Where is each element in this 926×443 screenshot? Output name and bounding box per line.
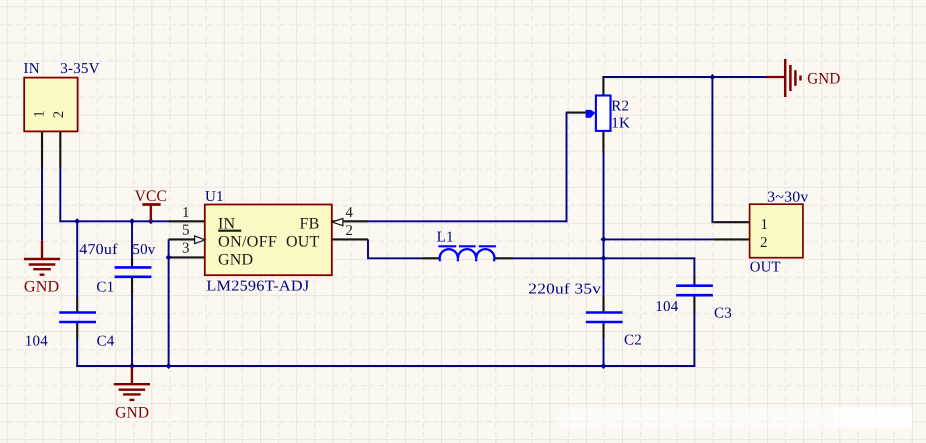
svg-text:220uf 35v: 220uf 35v xyxy=(528,282,601,298)
svg-text:50v: 50v xyxy=(132,242,155,258)
svg-text:104: 104 xyxy=(25,334,48,350)
svg-text:1: 1 xyxy=(182,205,190,221)
svg-text:ON/OFF: ON/OFF xyxy=(218,233,277,250)
svg-text:OUT: OUT xyxy=(750,260,781,276)
svg-text:3-35V: 3-35V xyxy=(60,61,99,77)
svg-text:R2: R2 xyxy=(611,99,629,115)
svg-text:2: 2 xyxy=(760,235,768,251)
svg-text:104: 104 xyxy=(655,299,678,315)
svg-text:GND: GND xyxy=(218,251,253,268)
svg-text:C2: C2 xyxy=(624,332,642,348)
svg-text:L1: L1 xyxy=(437,229,454,245)
svg-text:C4: C4 xyxy=(97,334,115,350)
svg-text:C3: C3 xyxy=(714,306,732,322)
svg-text:3: 3 xyxy=(182,241,190,257)
svg-text:GND: GND xyxy=(115,405,149,422)
svg-text:FB: FB xyxy=(300,215,320,232)
svg-text:1: 1 xyxy=(761,217,769,233)
svg-text:C1: C1 xyxy=(96,280,114,296)
svg-text:1: 1 xyxy=(32,110,48,117)
svg-text:GND: GND xyxy=(24,279,60,296)
svg-text:5: 5 xyxy=(182,223,190,239)
svg-text:470uf: 470uf xyxy=(79,242,117,258)
svg-text:3~30v: 3~30v xyxy=(767,189,809,205)
svg-text:2: 2 xyxy=(51,111,67,118)
svg-text:IN: IN xyxy=(24,61,40,77)
svg-text:U1: U1 xyxy=(205,189,224,205)
svg-text:LM2596T-ADJ: LM2596T-ADJ xyxy=(206,279,309,295)
svg-text:GND: GND xyxy=(807,70,840,87)
svg-text:1K: 1K xyxy=(611,115,630,131)
svg-text:VCC: VCC xyxy=(135,188,167,205)
svg-text:2: 2 xyxy=(345,223,353,239)
svg-text:4: 4 xyxy=(345,205,353,221)
svg-text:OUT: OUT xyxy=(286,233,320,250)
